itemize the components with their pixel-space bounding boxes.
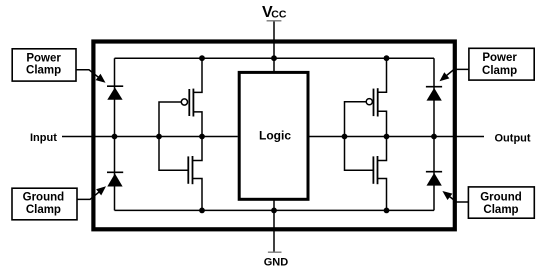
svg-text:Input: Input [30, 132, 57, 144]
svg-text:Power: Power [482, 52, 517, 64]
svg-text:Ground: Ground [480, 192, 522, 204]
svg-text:Output: Output [495, 132, 531, 144]
svg-text:CC: CC [271, 8, 287, 20]
svg-text:Clamp: Clamp [26, 204, 61, 216]
svg-text:Clamp: Clamp [26, 65, 61, 77]
svg-text:Clamp: Clamp [482, 65, 517, 77]
svg-text:Logic: Logic [259, 129, 291, 143]
svg-text:GND: GND [264, 256, 289, 267]
svg-text:Clamp: Clamp [483, 204, 518, 216]
svg-text:Power: Power [26, 52, 61, 64]
svg-text:Ground: Ground [23, 191, 65, 203]
